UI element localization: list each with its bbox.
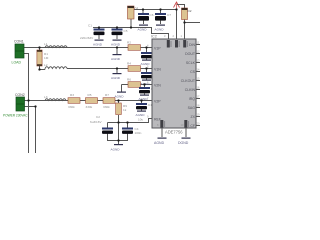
svg-text:C1: C1 bbox=[88, 24, 92, 28]
resistor R5 bbox=[86, 93, 98, 109]
wire COM1 pin2 down bbox=[24, 54, 29, 154]
svg-text:POWER 230VAC: POWER 230VAC bbox=[3, 114, 28, 118]
svg-text:V2P: V2P bbox=[154, 100, 161, 104]
svg-text:6u3/16V: 6u3/16V bbox=[90, 120, 102, 124]
ground AGND under C13 bbox=[136, 111, 147, 118]
resistor R2 bbox=[127, 41, 141, 51]
wire AVDD bus bbox=[93, 28, 169, 40]
IC2 right pin labels bbox=[181, 43, 196, 128]
connector CON1 bbox=[12, 40, 25, 65]
svg-text:AGND: AGND bbox=[111, 76, 121, 80]
svg-text:SAG: SAG bbox=[188, 106, 196, 110]
svg-text:SCLK: SCLK bbox=[186, 61, 196, 65]
IC2 bottom pin boxes bbox=[157, 120, 189, 128]
ground AGND under C7 bbox=[155, 25, 166, 32]
svg-text:AGND: AGND bbox=[155, 28, 165, 32]
svg-text:REF: REF bbox=[154, 118, 161, 122]
svg-text:330k: 330k bbox=[103, 105, 110, 109]
svg-text:AGND: AGND bbox=[111, 57, 121, 61]
ground DGND under IC2 bbox=[178, 138, 191, 146]
wire R9 bottom to AGND rail bbox=[118, 115, 120, 141]
svg-text:AGND: AGND bbox=[136, 113, 146, 117]
capacitor C1 bbox=[80, 24, 105, 41]
svg-text:330k: 330k bbox=[68, 105, 75, 109]
svg-text:AGND: AGND bbox=[115, 95, 125, 99]
wire V1N row right bbox=[67, 68, 152, 70]
svg-text:V1N: V1N bbox=[154, 68, 161, 72]
wire cap bottom rail bbox=[108, 134, 128, 141]
svg-text:R7: R7 bbox=[105, 93, 109, 97]
resistor R3 bbox=[68, 93, 80, 109]
svg-text:AGND: AGND bbox=[154, 141, 165, 145]
svg-text:C2: C2 bbox=[96, 115, 100, 119]
svg-text:D2: D2 bbox=[188, 9, 192, 13]
capacitor C11 bbox=[141, 69, 159, 80]
capacitor C6 bbox=[138, 10, 154, 25]
svg-text:R6: R6 bbox=[127, 78, 131, 82]
ground AGND under C2 C4 bbox=[111, 141, 124, 152]
svg-text:LOAD: LOAD bbox=[12, 61, 22, 65]
wire V1N row bbox=[40, 69, 46, 71]
svg-text:R4: R4 bbox=[127, 62, 131, 66]
connector CON2 bbox=[3, 93, 28, 118]
svg-text:AGND: AGND bbox=[93, 43, 103, 47]
wire V2P row bbox=[24, 100, 152, 102]
svg-text:220n/63V: 220n/63V bbox=[80, 36, 94, 40]
svg-text:CLKOUT: CLKOUT bbox=[181, 79, 196, 83]
wire REF row bbox=[108, 119, 153, 123]
IC2 right pin leads bbox=[196, 45, 200, 126]
svg-text:330k: 330k bbox=[86, 105, 93, 109]
svg-text:C5: C5 bbox=[124, 29, 128, 33]
svg-text:C6: C6 bbox=[150, 13, 154, 17]
capacitor C4 bbox=[122, 127, 142, 135]
svg-text:10u: 10u bbox=[138, 118, 143, 122]
op-amp IC2 body bbox=[151, 35, 196, 135]
wire V2N row bbox=[122, 84, 153, 86]
svg-text:CON1: CON1 bbox=[14, 40, 24, 44]
wire DVDD to IC pin2 bbox=[176, 10, 178, 40]
svg-text:AGND: AGND bbox=[141, 62, 151, 66]
wire DVDD bus top bbox=[131, 9, 177, 11]
svg-text:IRQ: IRQ bbox=[189, 97, 196, 101]
ground AGND on V1P node bbox=[111, 48, 122, 62]
wire V2N to AGND stub bbox=[121, 85, 123, 92]
wire C2 stub bbox=[107, 123, 109, 128]
resistor R4 bbox=[127, 62, 141, 72]
IC2 top pin boxes bbox=[164, 34, 188, 48]
resistor R9 bbox=[116, 101, 128, 115]
ground AGND under C1 bbox=[93, 40, 104, 47]
svg-text:DOUT: DOUT bbox=[185, 52, 196, 56]
capacitor C5 bbox=[112, 28, 128, 40]
ground AGND under C10 bbox=[141, 60, 152, 67]
svg-text:CS: CS bbox=[190, 70, 196, 74]
ground AGND under C5 bbox=[111, 40, 122, 47]
resistor R7 bbox=[103, 93, 115, 109]
resistor R6 bbox=[127, 78, 141, 88]
inductor L2 bbox=[44, 63, 67, 70]
inductor L1 bbox=[44, 42, 67, 48]
vcc supply symbol bbox=[174, 2, 180, 10]
svg-text:CLKIN: CLKIN bbox=[185, 88, 196, 92]
svg-text:ADE7756: ADE7756 bbox=[165, 130, 183, 135]
svg-text:DIN: DIN bbox=[189, 43, 196, 47]
svg-text:V1P: V1P bbox=[154, 47, 161, 51]
ground AGND on V2N left bbox=[115, 92, 127, 99]
svg-text:CON2: CON2 bbox=[15, 93, 25, 97]
svg-text:AGND: AGND bbox=[111, 148, 121, 152]
IC2 right pin numbers bbox=[197, 41, 200, 126]
wire V1P row bbox=[24, 47, 152, 49]
svg-text:V2N: V2N bbox=[154, 84, 161, 88]
diode D1 bbox=[128, 6, 139, 28]
capacitor C7 bbox=[155, 10, 171, 25]
svg-text:1k: 1k bbox=[123, 108, 127, 112]
diode D2 bbox=[177, 5, 192, 23]
svg-text:1M: 1M bbox=[44, 56, 49, 60]
svg-text:IC2: IC2 bbox=[151, 35, 157, 39]
ground AGND under C12 bbox=[139, 95, 150, 102]
svg-text:ZX: ZX bbox=[191, 115, 196, 119]
svg-text:R5: R5 bbox=[88, 93, 92, 97]
capacitor C13 bbox=[136, 101, 154, 111]
svg-text:R2: R2 bbox=[127, 41, 131, 45]
inductor L3 bbox=[44, 95, 66, 101]
svg-text:AGND: AGND bbox=[111, 43, 121, 47]
ground AGND on V1N node bbox=[111, 69, 122, 81]
wire D2 cathode to IC RESET pin bbox=[184, 23, 186, 40]
svg-text:D1: D1 bbox=[135, 7, 139, 11]
wire C4 stub bbox=[127, 123, 129, 128]
wire D2 cathode to right edge bbox=[185, 22, 201, 24]
IC2 bottom pin leads bbox=[162, 128, 186, 137]
ground AGND under C6 bbox=[138, 25, 149, 32]
IC2 left pin labels bbox=[154, 47, 161, 122]
svg-text:AGND: AGND bbox=[138, 28, 148, 32]
svg-text:DGND: DGND bbox=[178, 141, 189, 145]
wire CON2 pin2 down bbox=[24, 107, 36, 154]
capacitor C10 bbox=[141, 48, 159, 60]
svg-text:CF: CF bbox=[190, 124, 195, 128]
ground AGND under C11 bbox=[141, 80, 152, 87]
ground AGND under IC2 bbox=[154, 138, 167, 146]
svg-text:100n: 100n bbox=[135, 131, 142, 135]
IC2 left pin numbers bbox=[147, 44, 149, 119]
svg-text:R3: R3 bbox=[70, 93, 74, 97]
capacitor C2 bbox=[90, 115, 113, 134]
resistor R1 bbox=[37, 48, 49, 70]
capacitor C12 bbox=[139, 85, 157, 95]
svg-text:C7: C7 bbox=[167, 13, 171, 17]
